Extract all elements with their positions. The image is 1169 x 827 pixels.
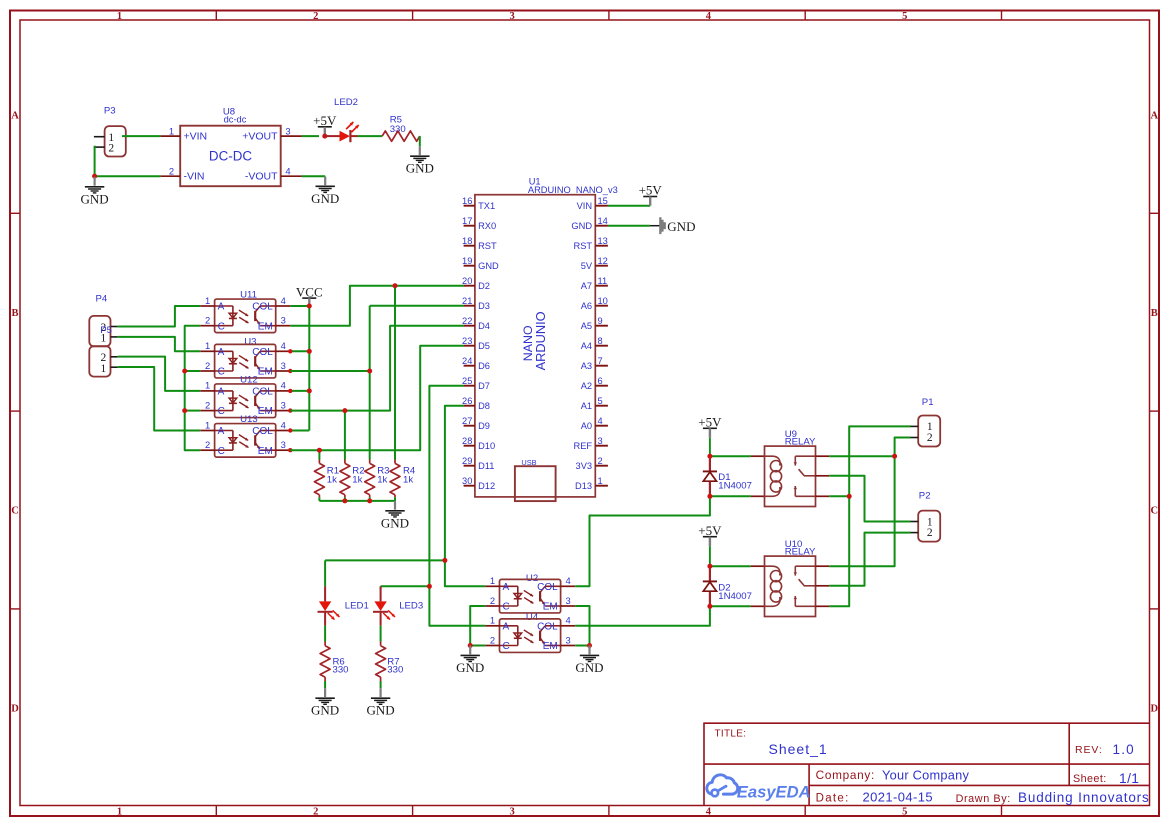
optocoupler U12 [200,375,290,418]
junction rail at R2 [342,498,347,503]
wire net P1 pin2 relay normally-closed bus [829,438,910,567]
wire U2/U4 emitters to ground [575,606,589,646]
resistor R6 330 [320,642,348,682]
junction VCC at U12 collector [307,388,312,393]
ground symbol at U8 -VOUT [311,176,339,205]
wire R6 to ground [324,681,326,688]
svg-text:COL: COL [537,582,558,593]
svg-text:COL: COL [252,426,273,437]
svg-text:GND: GND [81,191,109,206]
wire P3 pin1 to U8 +VIN [122,135,161,137]
svg-text:4: 4 [285,165,290,176]
svg-text:LED2: LED2 [334,97,358,108]
wire D2 to U10 coil [710,565,751,567]
svg-text:1/1: 1/1 [1119,771,1139,786]
svg-text:2: 2 [169,165,174,176]
svg-text:GND: GND [406,161,434,176]
junction D4 net to R2 [342,408,347,413]
svg-text:TITLE:: TITLE: [715,729,747,740]
wire U8 -VOUT to ground [302,175,325,177]
title block frame [704,723,1150,805]
svg-text:10: 10 [598,296,608,306]
ground symbol at U2/U4 cathodes [456,646,484,675]
svg-text:2: 2 [598,456,603,466]
svg-text:3: 3 [598,436,603,446]
svg-text:9: 9 [598,316,603,326]
svg-text:7: 7 [598,356,603,366]
EasyEDA logo [707,775,811,801]
svg-text:1.0: 1.0 [1113,742,1135,757]
svg-text:P4: P4 [96,293,108,304]
wire net D7 to LED3 and U4 anode [429,386,485,626]
svg-text:EM: EM [258,446,273,457]
svg-text:1: 1 [205,340,210,351]
svg-text:D4: D4 [478,321,490,331]
svg-text:EM: EM [258,406,273,417]
svg-text:1: 1 [117,806,122,817]
ground net flag at U1 GND [650,217,696,234]
svg-text:TX1: TX1 [478,201,495,211]
usb port box on U1 [515,458,556,501]
svg-text:D11: D11 [478,461,494,471]
svg-text:A2: A2 [581,381,592,391]
VCC power flag [296,284,323,306]
svg-text:P5: P5 [100,325,112,336]
svg-text:28: 28 [462,436,472,446]
svg-text:4: 4 [565,615,570,626]
svg-text:D10: D10 [478,441,495,451]
svg-text:3: 3 [509,11,514,22]
svg-text:RST: RST [478,241,497,251]
junction D7 net at LED3 [427,584,432,589]
wire net D8 to LED1 and U2 anode [445,406,485,587]
svg-text:1: 1 [117,11,122,22]
wire LED2 cathode to R5 [358,135,383,137]
svg-text:A3: A3 [581,361,592,371]
svg-text:+5V: +5V [698,523,722,538]
wire net U3 emitter to D3 and R3 [290,370,369,372]
wire P5 pin2 to U13 anode [118,367,201,431]
svg-text:RX0: RX0 [478,221,496,231]
svg-text:3: 3 [281,315,286,326]
wire net U13 emitter to D5 and R1 [290,346,463,451]
svg-text:B: B [1151,308,1158,319]
svg-text:+5V: +5V [639,183,663,198]
svg-text:REV:: REV: [1075,744,1103,756]
svg-text:D6: D6 [478,361,490,371]
svg-text:16: 16 [462,196,472,206]
svg-text:3: 3 [565,634,570,645]
wire LED3 from net [380,586,382,590]
wire P5 pin1 to U12 anode [118,357,201,391]
svg-text:D13: D13 [575,481,592,491]
svg-text:A0: A0 [581,421,592,431]
svg-text:A: A [218,347,225,358]
junction VCC at U3 collector [307,349,312,354]
svg-text:Sheet_1: Sheet_1 [769,741,828,757]
connector P2 [911,490,941,541]
svg-text:3V3: 3V3 [576,461,593,471]
svg-text:3: 3 [565,595,570,606]
junction D5 net to R1 [317,448,322,453]
node U13 collector pin end [288,428,292,432]
svg-text:REF: REF [573,441,592,451]
wire P3 pin2 to GND and U8 -VIN [94,146,96,177]
svg-text:14: 14 [598,216,608,226]
optocoupler U2 [485,573,575,613]
svg-text:Budding Innovators: Budding Innovators [1018,790,1150,805]
svg-text:4: 4 [706,806,712,817]
wire U10 common to P2 pin2 [829,533,910,586]
svg-text:4: 4 [281,340,286,351]
svg-text:P3: P3 [104,106,116,117]
svg-text:EM: EM [543,641,558,652]
svg-text:P2: P2 [919,490,931,501]
svg-text:3: 3 [509,806,514,817]
svg-text:VIN: VIN [577,201,593,211]
svg-text:A4: A4 [581,341,592,351]
svg-text:+VOUT: +VOUT [242,131,278,143]
connector P5 [89,325,117,376]
connector P4 [89,293,117,346]
svg-text:19: 19 [462,256,472,266]
junction +5V LED2 node [322,134,327,139]
junction NO bus at U9 [847,494,852,499]
wire D1 to U9 coil [710,455,751,457]
svg-text:1: 1 [205,380,210,391]
svg-text:GND: GND [311,191,339,206]
junction cathode bus at U3 [182,369,187,374]
svg-text:2: 2 [313,11,318,22]
svg-text:A: A [11,111,19,122]
svg-text:A: A [503,621,510,632]
svg-text:5: 5 [902,11,907,22]
relay U10 contact stubs [816,566,830,606]
ground symbol at R7 [367,688,395,717]
ground symbol at R5 [406,146,434,175]
svg-text:EM: EM [258,321,273,332]
junction rail at R3 [367,498,372,503]
svg-text:C: C [503,641,510,652]
svg-text:A6: A6 [581,301,592,311]
svg-text:D: D [11,703,19,714]
junction D1 anode node [707,494,712,499]
wire U2/U4 cathodes to ground [470,606,485,646]
svg-text:C: C [218,321,225,332]
svg-text:1: 1 [205,419,210,430]
svg-text:5: 5 [598,396,603,406]
svg-text:ARDUNIO: ARDUNIO [533,311,548,370]
svg-text:3: 3 [281,360,286,371]
svg-text:LED3: LED3 [399,601,423,612]
junction D1 cathode +5V node [707,454,712,459]
wire net P1 pin1 relay normally-open bus [829,426,910,606]
svg-text:dc-dc: dc-dc [224,115,247,125]
svg-text:RST: RST [573,241,592,251]
svg-text:D12: D12 [478,481,495,491]
svg-text:21: 21 [462,296,472,306]
svg-text:COL: COL [537,621,558,632]
svg-text:1: 1 [490,615,495,626]
svg-text:+VIN: +VIN [184,131,208,143]
svg-text:3: 3 [281,439,286,450]
dc-dc converter U8 [161,106,302,186]
svg-text:2: 2 [313,806,318,817]
svg-text:COL: COL [252,347,273,358]
junction D2 anode node [707,604,712,609]
svg-text:C: C [218,446,225,457]
svg-text:1N4007: 1N4007 [718,481,752,492]
svg-text:25: 25 [462,376,472,386]
svg-text:1: 1 [169,125,174,136]
svg-text:330: 330 [390,124,406,135]
wire U9 common to P2 pin1 [829,476,910,522]
junction VCC at U11 collector [307,304,312,309]
ground symbol at P3 [81,177,109,206]
diode D1 1N4007 [703,456,752,496]
wire U4 collector to relay U10 coil return [575,606,710,626]
resistor R1 1k [314,460,339,498]
optocoupler U4 [485,612,575,652]
frame column numbers bottom [117,806,907,817]
junction D3 net at U3 emitter [367,369,372,374]
svg-text:2: 2 [108,143,114,155]
connector P3 [94,106,126,157]
frame column numbers top [117,11,907,22]
svg-text:ARDUINO_NANO_v3: ARDUINO_NANO_v3 [528,185,618,195]
wire U8 +VOUT to LED2 anode [302,135,319,137]
wire resistor ground rail [318,497,320,501]
svg-text:11: 11 [598,276,608,286]
svg-text:1k: 1k [377,475,387,486]
svg-text:EM: EM [258,367,273,378]
svg-text:DC-DC: DC-DC [209,149,252,164]
svg-text:4: 4 [706,11,712,22]
svg-text:D9: D9 [478,421,490,431]
node U12 emitter pin end [288,408,292,412]
diode D2 1N4007 [703,566,752,606]
svg-text:1k: 1k [327,475,337,486]
svg-text:1: 1 [598,476,603,486]
svg-text:EM: EM [543,602,558,613]
relay U9 contact stubs [816,456,830,496]
svg-text:Date:: Date: [816,792,850,804]
svg-text:-VIN: -VIN [184,171,205,183]
svg-text:Your Company: Your Company [882,767,970,782]
junction U2/U4 emitter ground [587,643,592,648]
svg-text:1N4007: 1N4007 [718,591,752,602]
svg-text:2: 2 [490,634,495,645]
wire R5 to ground [419,136,421,146]
svg-text:C: C [503,602,510,613]
wire net U11 emitter to D2 and R4 [290,286,463,326]
svg-text:24: 24 [462,356,472,366]
svg-text:6: 6 [598,376,603,386]
svg-text:4: 4 [598,416,603,426]
frame row letters left [11,111,19,715]
svg-text:3: 3 [281,399,286,410]
junction cathode bus at U12 [182,408,187,413]
resistor R3 1k [365,460,390,498]
svg-text:D5: D5 [478,341,490,351]
ground symbol at R6 [311,688,339,717]
LED2 [325,97,359,142]
relay U10 [765,539,817,616]
svg-text:GND: GND [667,219,695,234]
wire VCC collector rail [290,305,309,307]
svg-text:B: B [11,308,18,319]
svg-text:GND: GND [381,515,409,530]
svg-text:COL: COL [252,302,273,313]
node U3 emitter pin end [288,369,292,373]
svg-text:Sheet:: Sheet: [1073,773,1107,785]
svg-text:2: 2 [927,432,933,444]
node U12 collector pin end [288,389,292,393]
wire U1 GND to ground flag [608,225,650,227]
svg-text:5: 5 [902,806,907,817]
svg-text:4: 4 [281,380,286,391]
junction D2 net to R4 [393,283,398,288]
svg-text:P1: P1 [922,397,934,408]
svg-text:1: 1 [101,363,107,375]
svg-text:U3: U3 [244,336,256,347]
junction NC bus at U9 [892,454,897,459]
svg-text:EasyEDA: EasyEDA [737,782,811,801]
node U3 collector pin end [288,349,292,353]
svg-text:Drawn By:: Drawn By: [956,793,1011,805]
svg-text:1: 1 [205,295,210,306]
wire net U12 emitter to D4 and R2 [290,326,463,411]
wire P4 pin2 to U3 anode [118,337,201,351]
wire common cathode bus [185,326,201,451]
svg-text:1k: 1k [352,475,362,486]
svg-text:20: 20 [462,276,472,286]
svg-text:GND: GND [575,660,603,675]
ground symbol at U2/U4 emitters [575,646,603,675]
wire U2 collector to relay U9 coil return [575,496,710,586]
relay U9 [765,429,817,506]
svg-text:23: 23 [462,336,472,346]
wire LED3 to R7 [380,626,382,642]
arduino nano U1 [462,177,618,497]
svg-text:A: A [503,582,510,593]
svg-text:8: 8 [598,336,603,346]
svg-text:C: C [218,367,225,378]
resistor R2 1k [340,460,365,498]
node U13 emitter pin end [288,448,292,452]
svg-text:GND: GND [478,261,499,271]
svg-text:D: D [1151,703,1159,714]
resistor R5 330 [382,114,420,141]
svg-text:15: 15 [598,196,608,206]
svg-text:2: 2 [205,360,210,371]
optocoupler U3 [200,336,290,378]
junction D2 cathode +5V node [707,564,712,569]
svg-text:13: 13 [598,236,608,246]
svg-text:A: A [218,426,225,437]
svg-text:2: 2 [927,527,933,539]
svg-text:4: 4 [281,419,286,430]
svg-text:22: 22 [462,316,472,326]
svg-text:GND: GND [311,703,339,718]
svg-text:2: 2 [205,439,210,450]
frame row letters right [1151,111,1159,715]
svg-text:D7: D7 [478,381,490,391]
svg-text:330: 330 [387,665,403,676]
junction P3 ground node [92,174,97,179]
svg-text:+5V: +5V [698,415,722,430]
svg-text:5V: 5V [581,261,593,271]
ground symbol at resistor rail [381,501,409,530]
svg-text:17: 17 [462,216,472,226]
svg-text:A: A [218,302,225,313]
svg-text:C: C [11,506,19,517]
svg-text:1: 1 [490,575,495,586]
junction D8 net at LED1 [442,558,447,563]
svg-text:COL: COL [252,387,273,398]
svg-text:A: A [1151,111,1159,122]
svg-text:27: 27 [462,416,472,426]
svg-text:+5V: +5V [313,113,337,128]
svg-text:-VOUT: -VOUT [245,171,278,183]
svg-text:A: A [218,387,225,398]
wire P4 pin1 to U11 anode [118,306,201,327]
connector P1 [911,397,941,447]
svg-text:GND: GND [456,660,484,675]
+5V power flag at D1 [698,415,722,457]
svg-text:VCC: VCC [296,284,323,299]
svg-text:C: C [218,406,225,417]
svg-text:D3: D3 [478,301,490,311]
svg-text:3: 3 [285,125,290,136]
svg-text:2: 2 [490,595,495,606]
svg-text:26: 26 [462,396,472,406]
svg-text:2: 2 [205,315,210,326]
svg-text:GND: GND [571,221,592,231]
wire LED1 to R6 [324,626,326,642]
svg-text:GND: GND [367,703,395,718]
svg-text:18: 18 [462,236,472,246]
svg-text:2: 2 [205,399,210,410]
svg-text:Company:: Company: [816,768,875,782]
wire U1 VIN to +5V [608,205,650,207]
optocoupler U13 [200,414,290,457]
svg-text:LED1: LED1 [345,601,369,612]
svg-text:A5: A5 [581,321,592,331]
svg-text:30: 30 [462,476,472,486]
+5V power flag at U1 VIN [639,183,663,206]
resistor R7 330 [376,642,404,682]
svg-text:A7: A7 [581,281,592,291]
+5V power flag at D2 [698,523,722,566]
svg-text:4: 4 [565,575,570,586]
svg-text:12: 12 [598,256,608,266]
junction U2/U4 cathode ground [468,643,473,648]
svg-text:C: C [1151,506,1159,517]
svg-text:D2: D2 [478,281,490,291]
wire LED1 from net [324,560,326,586]
wire R7 to ground [380,681,382,688]
svg-text:330: 330 [333,665,349,676]
resistor R4 1k [390,460,416,498]
svg-text:29: 29 [462,456,472,466]
svg-text:2021-04-15: 2021-04-15 [863,789,934,804]
svg-text:1k: 1k [403,475,413,486]
svg-text:A1: A1 [581,401,592,411]
svg-text:4: 4 [281,295,286,306]
optocoupler U11 [200,290,290,333]
svg-text:D8: D8 [478,401,490,411]
